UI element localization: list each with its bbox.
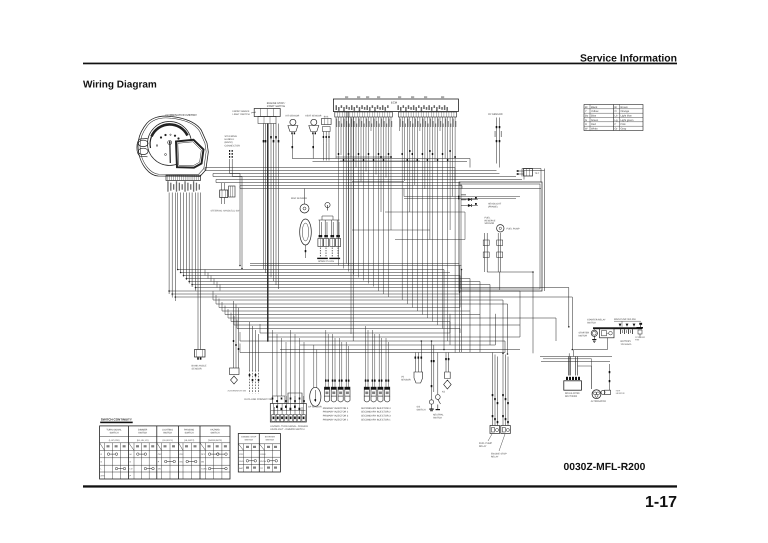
svg-text:SENSOR: SENSOR xyxy=(192,367,202,370)
regulator rectifier xyxy=(566,377,568,380)
svg-text:PUSH: PUSH xyxy=(260,460,266,463)
svg-text:Wiring Diagram: Wiring Diagram xyxy=(83,80,157,91)
svg-text:PASSING: PASSING xyxy=(184,429,194,432)
wire ECM pin A23 xyxy=(390,117,392,230)
wire drop x533 xyxy=(532,272,534,353)
wire ECM pin B12 xyxy=(426,117,428,318)
svg-text:Green: Green xyxy=(591,119,599,122)
svg-text:SWITCH: SWITCH xyxy=(417,408,426,411)
svg-text:SENSOR: SENSOR xyxy=(401,378,411,381)
svg-text:(FRAME): (FRAME) xyxy=(488,205,498,208)
svg-text:(HL,BAT1): (HL,BAT1) xyxy=(163,439,173,442)
combination meter needle xyxy=(169,141,172,163)
wire bas drops xyxy=(322,132,324,143)
wire meter harness xyxy=(174,193,176,302)
alternator xyxy=(592,390,601,399)
wire steering stubs xyxy=(229,150,230,152)
wire ECM pin B14 xyxy=(432,117,434,322)
wires data link (dashed) xyxy=(249,322,251,370)
wire hazard feed 7 xyxy=(299,338,301,404)
svg-text:HEATER: HEATER xyxy=(616,392,625,395)
wire relay feed 6 xyxy=(507,357,509,426)
wire harness bus y297 xyxy=(175,296,572,298)
svg-text:(L,W1,SW): (L,W1,SW) xyxy=(109,439,120,442)
engine stop / starter switch table xyxy=(238,434,280,473)
wire relay feed 4 xyxy=(502,353,504,426)
primary injector 3 xyxy=(338,387,343,396)
svg-text:ECM: ECM xyxy=(391,101,398,105)
wire ECM pin A2 xyxy=(338,117,340,266)
wire harness bus y269.5 xyxy=(178,269,444,271)
wire ECM pin A21 xyxy=(385,117,387,178)
wire drop x470 xyxy=(469,279,471,312)
ECM pin row B xyxy=(399,112,457,117)
ignition coil 4 xyxy=(336,220,338,235)
svg-text:ENGINE STOP: ENGINE STOP xyxy=(241,436,256,439)
svg-text:ON: ON xyxy=(201,461,205,464)
wire harness bus y352.5 xyxy=(240,352,505,354)
wire to bank angle sensor xyxy=(197,193,199,350)
dial marks xyxy=(160,136,162,138)
svg-text:SWITCH: SWITCH xyxy=(138,432,147,435)
wire ECM pin A6 xyxy=(348,117,350,272)
svg-text:SECONDARY INJECTOR 4: SECONDARY INJECTOR 4 xyxy=(361,407,391,410)
wire O2 sensor xyxy=(496,118,498,164)
wire ECM pin A1 xyxy=(335,117,337,159)
wire ECM pin A3 xyxy=(340,117,342,155)
headlight diodes xyxy=(461,199,468,201)
svg-text:(FR): (FR) xyxy=(101,475,105,478)
wire harness bus y272.5 xyxy=(181,272,450,274)
wire ECM pin B11 xyxy=(424,117,426,189)
wire harness bus y325 xyxy=(234,324,520,326)
wires regulator feeds xyxy=(568,357,570,376)
wire drop x569.2 xyxy=(568,353,570,375)
wire harness bus y345 xyxy=(300,344,495,346)
wire center verticals xyxy=(345,112,347,264)
svg-text:HAZARD: HAZARD xyxy=(210,429,220,432)
small component left-bottom xyxy=(230,368,240,375)
svg-text:CONNECTOR: CONNECTOR xyxy=(225,144,241,147)
wire bus y173.5 xyxy=(213,173,500,175)
secondary injector 3 xyxy=(378,387,383,396)
svg-text:Bu: Bu xyxy=(585,115,589,118)
knock sensor xyxy=(445,353,447,373)
svg-text:ON: ON xyxy=(158,468,162,471)
wire meter harness xyxy=(191,193,193,288)
svg-text:Brown: Brown xyxy=(621,106,629,109)
wire relay feed 1 xyxy=(492,353,494,426)
wire harness bus y281.5 xyxy=(189,281,480,283)
fuel pump xyxy=(497,225,504,232)
svg-text:White: White xyxy=(591,128,598,131)
footer rule xyxy=(83,485,677,487)
switch continuity table xyxy=(100,426,230,479)
svg-text:RELAY: RELAY xyxy=(491,455,499,458)
wire drop x459.5 xyxy=(459,266,461,353)
steering lower connector xyxy=(220,190,228,198)
wire drop x490 xyxy=(489,285,491,346)
svg-text:LIGHTING: LIGHTING xyxy=(162,429,173,432)
ECM wire labels xyxy=(336,119,337,128)
ignition coil 2 xyxy=(324,220,326,235)
svg-text:SENSOR: SENSOR xyxy=(485,222,495,225)
wire harness bus y333 xyxy=(260,332,450,334)
wire ECM pin B21 xyxy=(449,117,451,230)
wire ECM pin B1 xyxy=(399,117,401,131)
wire ECM pin A13 xyxy=(365,117,367,172)
svg-text:Light green: Light green xyxy=(621,119,635,122)
wire map sensor xyxy=(304,189,306,205)
svg-text:NEUTRAL: NEUTRAL xyxy=(433,414,444,417)
wire relay feed 2 xyxy=(494,355,496,426)
wire bus y161.5 xyxy=(313,161,468,163)
svg-text:R: R xyxy=(585,123,587,126)
wire harness bus y321.5 xyxy=(231,321,450,323)
svg-text:RECTIFIER: RECTIFIER xyxy=(565,395,577,398)
svg-text:Blue: Blue xyxy=(591,115,597,118)
svg-text:SWITCH CONTINUITY: SWITCH CONTINUITY xyxy=(101,417,132,421)
wire drop x568.8 xyxy=(568,288,570,327)
gear position sensor xyxy=(310,387,321,406)
wire ECM pin B6 xyxy=(411,117,413,308)
wire bus y176.5 xyxy=(213,176,516,178)
battery symbol xyxy=(620,329,622,334)
svg-text:STEERING HANDLE(L) SW: STEERING HANDLE(L) SW xyxy=(211,210,241,213)
wire hazard feed 5 xyxy=(290,330,292,404)
svg-text:FREE: FREE xyxy=(260,453,266,456)
hazard dimmer switch cluster xyxy=(270,404,306,423)
wire meter harness xyxy=(183,193,185,277)
combination meter left mount tabs xyxy=(137,139,148,157)
wire ECM pin A15 xyxy=(370,117,372,131)
svg-text:PRIMARY INJECTOR 1: PRIMARY INJECTOR 1 xyxy=(323,419,349,422)
svg-text:Pink: Pink xyxy=(621,123,627,126)
svg-text:STARTER: STARTER xyxy=(579,332,590,335)
wire hazard feed 1 xyxy=(272,330,274,396)
combination meter scale band (dark arc) xyxy=(152,124,188,136)
map sensor symbols xyxy=(300,204,309,213)
wires ECM jog horizontals xyxy=(336,156,390,158)
bank angle sensor xyxy=(195,350,206,358)
svg-text:STARTER: STARTER xyxy=(265,436,275,439)
wire bus y158.5 xyxy=(292,158,470,160)
wire harness bus y265.5 xyxy=(250,265,462,267)
wire ECM pin B13 xyxy=(429,117,431,240)
ignition coil 3 xyxy=(330,220,332,235)
svg-text:ON: ON xyxy=(179,461,183,464)
wire bus y167.5 xyxy=(205,167,455,169)
svg-text:SWITCH: SWITCH xyxy=(210,432,219,435)
wires staircase step connectors xyxy=(204,270,206,276)
combination meter body outline xyxy=(138,116,208,176)
secondary injector 2 xyxy=(371,387,376,396)
wire hazard feed 6 xyxy=(294,334,296,404)
svg-text:(HL,HU,LO): (HL,HU,LO) xyxy=(137,439,149,442)
wire drop x444 xyxy=(443,270,445,350)
starter motor xyxy=(591,330,597,336)
svg-text:DATA LINK CONNECTOR: DATA LINK CONNECTOR xyxy=(244,398,272,401)
wire ECM pin A12 xyxy=(363,117,365,281)
wire fuel loop bottom xyxy=(487,271,533,273)
wire ECM pin B23 xyxy=(454,117,456,353)
fuse tap arrows xyxy=(619,324,622,327)
wire drop x503 xyxy=(502,300,504,354)
wire ECM pin A4 xyxy=(343,117,345,269)
wire bus y179.5 xyxy=(216,179,522,181)
wire ECM pin B9 xyxy=(419,117,421,131)
svg-text:ALTERNATOR: ALTERNATOR xyxy=(591,400,606,403)
wire ECM pin B5 xyxy=(409,117,411,212)
hazard cluster internals xyxy=(276,406,278,408)
svg-text:BAS: BAS xyxy=(324,115,329,118)
wire drop x505 xyxy=(504,341,506,353)
starter ground xyxy=(593,336,595,339)
wire ECM pin A8 xyxy=(353,117,355,275)
vs sensor xyxy=(414,353,416,373)
fuel pump relay xyxy=(490,426,500,434)
svg-text:HEAT SENSOR: HEAT SENSOR xyxy=(305,115,322,118)
svg-text:SWITCH: SWITCH xyxy=(163,432,172,435)
ECM connector box xyxy=(333,99,458,112)
wire harness bus y278.5 xyxy=(186,278,470,280)
continuity marks table1 xyxy=(107,453,110,456)
combination meter tachometer dial xyxy=(148,122,192,166)
svg-text:TILT: TILT xyxy=(535,172,540,175)
svg-text:MOTOR: MOTOR xyxy=(579,334,588,337)
svg-text:TURN: TURN xyxy=(201,468,207,471)
wire harness bus y263.5 xyxy=(250,263,460,265)
o2 heater xyxy=(609,364,611,390)
svg-text:MAIN FUSE 30A 30A: MAIN FUSE 30A 30A xyxy=(614,318,636,321)
wire ECM pin B3 xyxy=(404,117,406,181)
svg-text:HEADLIGHT: HEADLIGHT xyxy=(488,203,502,206)
svg-text:G: G xyxy=(585,119,587,122)
wire harness bus y275.5 xyxy=(184,275,461,277)
svg-text:12V-8.6Ah: 12V-8.6Ah xyxy=(621,343,632,346)
combination meter LCD panel xyxy=(176,140,204,168)
svg-text:SWITCH: SWITCH xyxy=(433,416,442,419)
wire drop x460 xyxy=(459,329,461,334)
engine stop relay xyxy=(501,426,511,434)
wire ECM pin B18 xyxy=(442,117,444,329)
primary injector 4 xyxy=(345,387,350,396)
engine stop start switch xyxy=(254,109,280,117)
wire meter harness xyxy=(195,193,197,291)
svg-text:0030Z-MFL-R200: 0030Z-MFL-R200 xyxy=(564,462,646,473)
wire drop x480 xyxy=(479,315,481,353)
wire alternator loop xyxy=(591,359,593,366)
svg-text:TURN SIGNAL: TURN SIGNAL xyxy=(106,429,122,432)
wire hazard feed 8 xyxy=(303,342,305,404)
neutral switch xyxy=(437,353,439,395)
svg-text:SWITCH: SWITCH xyxy=(244,439,253,442)
svg-text:SWITCH: SWITCH xyxy=(110,432,119,435)
svg-text:(HL,BAT2): (HL,BAT2) xyxy=(184,439,194,442)
wire bundle left-bottom xyxy=(233,301,235,368)
svg-text:ENGINE STOP: ENGINE STOP xyxy=(491,453,507,456)
wire drop x520 xyxy=(519,325,521,337)
wire relay feed 5 xyxy=(505,355,507,426)
secondary injector 1 xyxy=(364,387,369,396)
header rule xyxy=(83,63,677,65)
svg-text:COOLING: COOLING xyxy=(635,336,645,339)
wire ECM pin A19 xyxy=(380,117,382,212)
wire ECM pin B20 xyxy=(447,117,449,341)
wire meter harness xyxy=(171,193,173,298)
primary injector 2 xyxy=(331,387,336,396)
kill switch main wire (thick) xyxy=(267,124,269,342)
svg-text:HEADLIGHT - DIMMER SWITCH: HEADLIGHT - DIMMER SWITCH xyxy=(270,428,304,431)
wire sensor drop xyxy=(312,135,314,159)
wire ECM pin B16 xyxy=(437,117,439,325)
wire ECM pin B17 xyxy=(439,117,441,131)
svg-text:O2 SENSOR: O2 SENSOR xyxy=(488,113,503,116)
wire ECM pin A10 xyxy=(358,117,360,278)
wire ECM pin B19 xyxy=(444,117,446,159)
svg-text:HAZARD -TURN SIGNAL- PASSING: HAZARD -TURN SIGNAL- PASSING xyxy=(270,425,308,428)
spark plug bars xyxy=(317,258,328,259)
svg-text:RESERVE: RESERVE xyxy=(485,219,496,222)
ignition coil 1 xyxy=(319,220,321,235)
wire ECM pin A7 xyxy=(350,117,352,157)
wire drop x480 xyxy=(479,282,481,315)
wire ECM pin A22 xyxy=(388,117,390,297)
wire drop x507.5 xyxy=(507,304,509,354)
wire harness bus y311 xyxy=(222,310,470,312)
wire ECM pin A14 xyxy=(368,117,370,284)
wire bus y170.5 xyxy=(205,170,497,172)
wire drop x499.8 xyxy=(499,272,501,290)
wire fuel pump drops xyxy=(484,233,486,272)
svg-text:Black: Black xyxy=(591,106,598,109)
combination meter pin labels xyxy=(167,181,168,192)
wire ECM pin A5 xyxy=(345,117,347,162)
wire hazard feed 4 xyxy=(285,342,287,396)
svg-text:Gr: Gr xyxy=(615,128,618,131)
svg-text:Red: Red xyxy=(591,123,596,126)
svg-text:PRIMARY INJECTOR 3: PRIMARY INJECTOR 3 xyxy=(323,415,349,418)
svg-text:PRIMARY INJECTOR 4: PRIMARY INJECTOR 4 xyxy=(323,407,349,410)
steering lower connector 2 xyxy=(229,186,235,197)
svg-text:HAF: HAF xyxy=(616,390,621,393)
wire ECM pin A11 xyxy=(360,117,362,182)
wire drop x520 xyxy=(519,291,521,325)
wire bus y185.5 xyxy=(240,185,462,187)
wire harness bus y349.5 xyxy=(280,349,520,351)
wire ECM pin B22 xyxy=(452,117,454,197)
wire harness bus y284.5 xyxy=(192,284,490,286)
wire harness bus y294 xyxy=(172,293,460,295)
wire relay drop xyxy=(607,338,609,350)
wire steering jog xyxy=(230,173,240,175)
fan breaker fuses xyxy=(637,327,644,329)
wire harness bus y318 xyxy=(228,317,556,319)
svg-text:OFF: OFF xyxy=(239,453,244,456)
wire drop x460 xyxy=(459,276,461,308)
svg-text:ALTERNATOR SW: ALTERNATOR SW xyxy=(228,390,247,393)
svg-text:FUEL PUMP: FUEL PUMP xyxy=(479,442,493,445)
wire ECM pin A18 xyxy=(378,117,380,291)
wire bus y182.5 xyxy=(216,182,460,184)
wire harness bus y314.5 xyxy=(225,314,480,316)
svg-text:START SWITCH: START SWITCH xyxy=(267,105,286,108)
wire drop x495.4 xyxy=(494,314,496,345)
wire hazard feed 3 xyxy=(281,338,283,396)
svg-text:RUN: RUN xyxy=(239,460,244,463)
svg-text:SWITCH: SWITCH xyxy=(587,321,596,324)
svg-text:OFF: OFF xyxy=(179,453,184,456)
starter relay box xyxy=(600,329,615,338)
svg-text:REGULATOR/: REGULATOR/ xyxy=(565,392,580,395)
svg-text:SPARK PLUGS: SPARK PLUGS xyxy=(318,260,335,263)
svg-text:BATTERY: BATTERY xyxy=(621,340,632,343)
battery bus bar (thick) xyxy=(593,327,642,329)
wire loop feeders xyxy=(540,169,542,183)
wire meter harness xyxy=(180,193,182,274)
svg-text:OFF: OFF xyxy=(201,453,206,456)
wire ECM pin B7 xyxy=(414,117,416,185)
svg-text:KS: KS xyxy=(442,391,446,394)
svg-text:SWITCH: SWITCH xyxy=(185,432,194,435)
main fuse flag xyxy=(640,325,642,328)
wire drop x572.3 xyxy=(571,297,573,350)
wire harness bus y291 xyxy=(169,290,520,292)
svg-text:FAN: FAN xyxy=(635,338,640,341)
wire ECM pin B8 xyxy=(416,117,418,311)
wire harness bus y300 xyxy=(213,299,503,301)
svg-text:SECONDARY INJECTOR 2: SECONDARY INJECTOR 2 xyxy=(361,411,391,414)
wire harness bus y341 xyxy=(240,340,505,342)
wire relay feed 3 xyxy=(497,357,499,426)
svg-text:Orange: Orange xyxy=(621,110,630,113)
svg-text:1-17: 1-17 xyxy=(645,494,677,511)
wire drop x470 xyxy=(469,311,471,352)
junction dots xyxy=(267,340,269,342)
svg-text:DIMMER: DIMMER xyxy=(138,429,148,432)
wire ECM pin B15 xyxy=(434,117,436,162)
ECM internal pin labels xyxy=(336,105,338,110)
svg-text:OFF: OFF xyxy=(158,453,163,456)
ignition coil tree xyxy=(327,205,329,211)
wire color legend table xyxy=(584,105,643,131)
wire ECM pin B10 xyxy=(421,117,423,315)
primary injector 1 xyxy=(324,387,329,396)
svg-text:O: O xyxy=(615,110,617,113)
secondary injector 4 xyxy=(385,387,390,396)
wires gp sensor xyxy=(313,345,315,388)
wires staircase left stubs xyxy=(212,291,214,300)
wire tilt stubs xyxy=(516,170,524,172)
wire meter harness xyxy=(185,193,187,281)
wire bus y188.5 xyxy=(240,188,541,190)
frame harness loop xyxy=(459,182,542,291)
svg-text:IAT SENSOR: IAT SENSOR xyxy=(286,115,300,118)
svg-text:VS: VS xyxy=(401,376,405,379)
wire drop x450 xyxy=(449,322,451,334)
svg-text:SECONDARY INJECTOR 1: SECONDARY INJECTOR 1 xyxy=(361,419,391,422)
svg-text:Br: Br xyxy=(615,106,618,109)
wire bus stitches xyxy=(204,168,206,171)
svg-text:FUEL PUMP: FUEL PUMP xyxy=(507,228,521,231)
side stand switch xyxy=(431,341,433,400)
wire ECM pin A16 xyxy=(373,117,375,287)
svg-text:Gray: Gray xyxy=(621,128,627,131)
wire meter harness xyxy=(177,193,179,270)
wire sensor drop xyxy=(291,135,293,159)
wire drop x450 xyxy=(449,314,451,345)
svg-text:Yellow: Yellow xyxy=(591,110,599,113)
